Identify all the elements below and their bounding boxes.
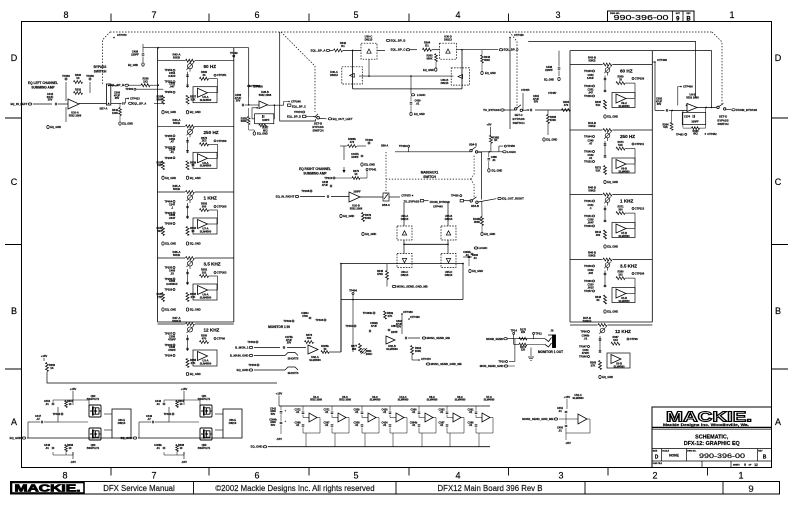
test point CTP208b	[248, 84, 261, 88]
svg-text:FROM_BYPASS: FROM_BYPASS	[430, 200, 450, 204]
svg-text:680: 680	[352, 347, 357, 351]
potentiometer wiper / band label 1 KHZ	[186, 193, 217, 203]
svg-text:.47: .47	[36, 417, 40, 421]
test point TP14	[511, 329, 518, 339]
svg-text:100K: 100K	[365, 216, 371, 220]
dashed branch to MAIN/AUX switch	[510, 32, 518, 106]
svg-text:SLM4560: SLM4560	[200, 295, 212, 299]
svg-text:20KU: 20KU	[366, 352, 373, 356]
svg-text:472: 472	[350, 140, 355, 144]
svg-text:.01: .01	[355, 411, 359, 414]
svg-text:TP239: TP239	[584, 94, 592, 98]
resistor R47-A	[158, 316, 234, 326]
test points TP404/TP222/TP256 and caps C347/C358	[165, 200, 189, 226]
svg-text:SWITCH: SWITCH	[312, 128, 323, 132]
resistor R340 and ground	[112, 103, 133, 125]
terminal EQL_BP_C input	[391, 48, 417, 52]
resistor R366b / TP446 / switch SB6-A	[340, 137, 388, 160]
svg-text:470PF: 470PF	[168, 348, 176, 352]
svg-text:SLM4560: SLM4560	[309, 358, 321, 362]
jumper SHORT5 / terminal B_MAIN_GND	[230, 353, 299, 361]
resistor R372 and ground	[595, 166, 618, 185]
svg-text:SLM4560: SLM4560	[427, 399, 438, 402]
terminal MON2_SEND	[486, 337, 545, 341]
svg-text:.01: .01	[558, 409, 562, 413]
svg-text:.01: .01	[584, 336, 588, 340]
resistor R346b and ground	[473, 201, 495, 236]
switch SB4-D and bypass riser	[469, 142, 482, 199]
svg-text:CAD FILE: CAD FILE	[653, 462, 663, 465]
potentiometer / band label 1 KHZ	[604, 196, 633, 206]
+15V supply mute block	[181, 387, 188, 400]
svg-text:CTP448: CTP448	[514, 33, 524, 37]
capacitor C366 and terminal EQL_BP_A	[111, 91, 164, 106]
svg-text:1: 1	[738, 471, 743, 481]
svg-text:6K2: 6K2	[693, 133, 698, 136]
svg-text:EQL_BP_A: EQL_BP_A	[311, 48, 326, 52]
resistor R44-B	[570, 121, 652, 131]
IC U36-E	[223, 409, 242, 438]
svg-text:250 HZ: 250 HZ	[204, 130, 219, 135]
svg-text:TP461: TP461	[164, 412, 172, 416]
op-amp U6-A	[193, 152, 218, 168]
svg-text:.0047: .0047	[587, 220, 594, 224]
svg-text:470: 470	[564, 103, 569, 107]
resistor R377 and trimmer R84	[351, 344, 372, 356]
capacitor C448 and resistor R368	[44, 443, 74, 452]
svg-text:TP96: TP96	[580, 330, 587, 334]
svg-text:MON2_SEND: MON2_SEND	[486, 337, 503, 341]
svg-text:TP450: TP450	[507, 144, 515, 148]
svg-text:EQ_GND: EQ_GND	[10, 436, 22, 440]
svg-text:MON_SEND_GND: MON_SEND_GND	[480, 364, 504, 368]
switch SET-C BYPASS SWITCH / TO_BYPASS	[483, 105, 529, 125]
svg-text:12 KHZ: 12 KHZ	[615, 329, 631, 334]
svg-text:SLM4560: SLM4560	[200, 164, 212, 168]
test points TP259/TP258 and resistor R330	[62, 73, 94, 84]
svg-text:5: 5	[353, 471, 358, 481]
svg-text:EQ_GND: EQ_GND	[365, 232, 376, 236]
svg-text:CTP470: CTP470	[421, 357, 431, 361]
buffer op-amp U5-C with caps C371/C367	[324, 396, 352, 447]
test points TP244/TP240/TP232 and caps	[584, 135, 606, 164]
svg-text:7: 7	[151, 10, 156, 20]
svg-text:-15V: -15V	[276, 437, 282, 441]
svg-text:EQL_BP_C: EQL_BP_C	[292, 104, 306, 108]
wire/box U30 group	[353, 50, 462, 89]
capacitor C374 feedback	[682, 107, 705, 128]
svg-text:TP409: TP409	[230, 51, 238, 55]
svg-text:100K: 100K	[112, 111, 118, 115]
svg-text:DFX12 Main Board 396 Rev B: DFX12 Main Board 396 Rev B	[438, 484, 543, 493]
op-amp U9-A	[612, 93, 635, 108]
transistor Q60	[53, 428, 101, 455]
dashed bus corner right	[712, 32, 722, 104]
test points TP463 / CTP452	[676, 132, 717, 137]
svg-text:EQ_GND: EQ_GND	[423, 68, 434, 72]
svg-text:BYPASS: BYPASS	[94, 65, 107, 69]
drawing-number strip 990-396-00	[608, 11, 695, 22]
capacitor C380 and ground	[488, 152, 503, 173]
svg-text:SWITCH: SWITCH	[717, 122, 728, 126]
svg-text:60 HZ: 60 HZ	[204, 64, 217, 69]
svg-text:500K: 500K	[156, 97, 162, 101]
resistors R175/R174	[514, 329, 545, 352]
svg-text:500K: 500K	[241, 120, 247, 123]
svg-text:8: 8	[63, 10, 68, 20]
svg-text:EQ_GND: EQ_GND	[165, 242, 176, 246]
terminal EQ_IN_RIGHT	[276, 189, 349, 199]
wire between switch rows	[403, 244, 449, 254]
svg-text:102: 102	[202, 270, 207, 274]
svg-text:300: 300	[157, 229, 162, 233]
svg-text:300: 300	[618, 207, 623, 211]
svg-text:EQ_GND: EQ_GND	[414, 112, 425, 116]
resistor R36B / TP450 / LOGIC	[478, 135, 516, 154]
svg-text:EQ_GND: EQ_GND	[484, 232, 495, 236]
test point TP464	[349, 289, 357, 352]
switch SET-B BYPASS SWITCH	[312, 114, 323, 132]
svg-text:BSS70LT1: BSS70LT1	[87, 446, 100, 450]
svg-text:TP238: TP238	[165, 156, 173, 160]
svg-text:TP240: TP240	[584, 150, 592, 154]
resistor R346 and ground	[481, 50, 496, 75]
svg-text:CTP406: CTP406	[683, 85, 693, 89]
svg-text:5532 2068: 5532 2068	[310, 399, 322, 402]
svg-text:3K: 3K	[596, 298, 599, 302]
svg-text:7: 7	[151, 471, 156, 481]
capacitor C454 and resistor R367	[44, 399, 74, 408]
svg-text:1K3: 1K3	[613, 338, 618, 342]
wire monitor bus	[340, 264, 342, 352]
svg-text:9: 9	[744, 463, 746, 467]
buffer op-amp U12-C with caps C420/C414	[382, 396, 410, 447]
resistor R381 and test point CTP203	[200, 268, 228, 291]
TP210 and capacitor C348	[322, 171, 367, 188]
svg-text:500KB: 500KB	[172, 319, 181, 323]
resistor R365b and ground	[543, 110, 558, 142]
svg-text:.01: .01	[296, 424, 300, 427]
svg-text:100PF: 100PF	[353, 191, 361, 194]
svg-text:51K: 51K	[596, 103, 601, 107]
resistor R44-A	[158, 118, 234, 128]
svg-text:100K: 100K	[415, 349, 421, 353]
svg-text:TP246: TP246	[579, 355, 587, 359]
svg-text:LOGIC: LOGIC	[417, 93, 425, 97]
svg-text:102: 102	[618, 272, 623, 276]
svg-text:LOGIC: LOGIC	[507, 150, 516, 154]
svg-text:50KB: 50KB	[173, 121, 180, 125]
svg-text:.01: .01	[296, 411, 300, 414]
resistor R374	[287, 333, 314, 348]
footer bar	[11, 482, 780, 495]
terminal B_MON_1 and capacitor C375b	[235, 335, 293, 350]
svg-text:EQL_BP_A: EQL_BP_A	[132, 102, 146, 106]
svg-text:TP236: TP236	[584, 264, 592, 268]
resistor R358b and ground	[241, 108, 268, 136]
potentiometer / band label 3.5 KHZ	[604, 261, 637, 271]
svg-text:SLM4560: SLM4560	[618, 169, 630, 173]
svg-text:.01: .01	[469, 411, 473, 414]
terminal MON1_SEND_MB	[408, 315, 450, 340]
svg-text:-15V: -15V	[565, 441, 571, 445]
svg-text:B: B	[775, 306, 781, 316]
svg-text:120: 120	[521, 349, 526, 352]
svg-text:TP12: TP12	[535, 331, 542, 335]
svg-text:REV: REV	[686, 13, 691, 15]
svg-text:TP241: TP241	[584, 214, 592, 218]
svg-text:DFX-12: GRAPHIC EQ: DFX-12: GRAPHIC EQ	[684, 441, 740, 447]
svg-text:EQ_IN_RIGHT: EQ_IN_RIGHT	[276, 195, 295, 199]
svg-text:C384: C384	[391, 325, 397, 328]
svg-text:SB6-A: SB6-A	[381, 145, 388, 148]
svg-text:51K: 51K	[618, 143, 623, 147]
svg-text:TP233: TP233	[584, 224, 592, 228]
svg-text:TP258: TP258	[86, 74, 94, 78]
svg-text:TP454: TP454	[345, 324, 353, 328]
svg-text:47UF: 47UF	[322, 183, 329, 187]
wire bus B	[528, 41, 695, 98]
svg-text:EQ_GND: EQ_GND	[50, 125, 61, 129]
resistor R363 and ground	[423, 51, 437, 72]
svg-text:.01: .01	[492, 158, 496, 162]
switch SET-D	[697, 104, 726, 111]
resistor R366	[683, 127, 706, 136]
op-amp U10-A summing amp	[58, 82, 106, 117]
svg-text:TP243: TP243	[584, 84, 592, 88]
svg-text:1K: 1K	[191, 163, 194, 167]
jack MONITOR 1 OUT connector	[545, 329, 556, 348]
svg-text:EQ_GND: EQ_GND	[602, 375, 613, 379]
svg-text:50KB: 50KB	[173, 56, 180, 60]
transistor Q59	[164, 428, 212, 455]
svg-text:SB4-D: SB4-D	[469, 142, 477, 146]
svg-text:35V: 35V	[657, 102, 662, 106]
svg-text:650K: 650K	[426, 56, 432, 60]
resistor R348 and ground	[595, 295, 618, 314]
svg-text:470PF: 470PF	[168, 337, 176, 341]
svg-text:5: 5	[353, 10, 358, 20]
zone row labels	[5, 53, 788, 427]
svg-text:MONITOR 1 OUT: MONITOR 1 OUT	[538, 350, 563, 354]
capacitor C347b and ground	[351, 152, 375, 167]
svg-text:100PF: 100PF	[262, 119, 270, 122]
svg-text:B_MON_1: B_MON_1	[235, 346, 249, 350]
wire bus C	[652, 51, 712, 109]
test point CTP12	[533, 331, 543, 338]
svg-text:EQ_GND: EQ_GND	[343, 214, 354, 218]
svg-text:EQ_GND: EQ_GND	[251, 445, 263, 449]
svg-text:CTP452: CTP452	[707, 132, 717, 136]
terminal MON1_SEND_GND_MB	[392, 285, 427, 289]
wire to MAIN/AUX switch	[389, 196, 400, 198]
dashed control line SB6	[385, 152, 387, 196]
svg-text:CTP375: CTP375	[401, 194, 411, 198]
terminal MON_SEND_GND and TP10	[480, 339, 515, 368]
svg-text:C374: C374	[684, 115, 691, 118]
buffer op-amp U7-C with caps C361/C386	[468, 396, 496, 447]
svg-text:6.8UF: 6.8UF	[587, 76, 594, 80]
svg-text:300: 300	[596, 233, 601, 237]
svg-text:990-396-00: 990-396-00	[614, 13, 669, 22]
svg-text:CTP466: CTP466	[403, 310, 413, 314]
svg-text:4: 4	[455, 471, 460, 481]
test points CTP375 / TP438	[401, 194, 461, 198]
op-amp U6-B	[612, 158, 635, 173]
svg-text:1: 1	[729, 10, 734, 20]
svg-text:+15V: +15V	[276, 392, 283, 396]
resistor R373 and test point CTP206	[200, 136, 228, 159]
svg-text:SLM4560: SLM4560	[200, 98, 212, 102]
svg-text:EQ_GND: EQ_GND	[472, 269, 483, 273]
label BYPASS SWITCH left	[94, 65, 107, 74]
svg-text:400K: 400K	[484, 58, 490, 62]
ground EQ_GND pair	[162, 176, 201, 180]
svg-text:51K: 51K	[157, 163, 162, 167]
svg-text:220PF: 220PF	[131, 52, 139, 56]
svg-text:35V: 35V	[397, 325, 402, 329]
svg-text:SCALE: SCALE	[662, 450, 669, 453]
svg-text:EQ_GND: EQ_GND	[165, 110, 176, 114]
svg-text:CTP208: CTP208	[253, 84, 263, 88]
resistor R364b	[663, 110, 673, 130]
svg-text:CTP206: CTP206	[217, 139, 227, 143]
svg-text:B_MAIN_GND: B_MAIN_GND	[230, 354, 249, 358]
ground EQ_GND pair	[162, 308, 201, 312]
svg-text:.0047: .0047	[169, 216, 176, 220]
svg-text:.01: .01	[45, 446, 49, 450]
svg-text:TP257: TP257	[584, 289, 592, 293]
svg-text:.0015: .0015	[587, 285, 594, 289]
svg-text:MON1_SEND_GND_MB: MON1_SEND_GND_MB	[397, 285, 428, 289]
svg-text:470: 470	[202, 336, 207, 340]
svg-text:TP247: TP247	[579, 345, 587, 349]
svg-text:CTP205: CTP205	[217, 205, 227, 209]
resistors R336/R337	[156, 95, 196, 105]
resistor R368 and ground	[590, 361, 613, 380]
capacitor C446 and resistor R367	[155, 399, 185, 408]
svg-text:TP433: TP433	[315, 318, 323, 322]
wire TP448 vertical	[509, 33, 524, 129]
svg-text:CTP238: CTP238	[635, 77, 645, 81]
label MONITOR 1 OUT	[538, 350, 563, 354]
svg-text:.01: .01	[412, 411, 416, 414]
svg-text:B1: B1	[341, 44, 345, 48]
svg-text:EQ_GND: EQ_GND	[237, 368, 249, 372]
test point TP461	[164, 412, 174, 416]
svg-text:EQ_GND: EQ_GND	[190, 176, 201, 180]
svg-text:B1: B1	[425, 43, 429, 47]
svg-text:Mackie Designs Inc. Woodinvi: Mackie Designs Inc. Woodinville, Wa.	[663, 423, 749, 427]
-15V supply mute block	[70, 452, 76, 464]
svg-text:1K: 1K	[354, 172, 357, 176]
transistor Q61	[164, 394, 212, 417]
svg-text:SWITCH: SWITCH	[513, 121, 525, 125]
svg-text:REV: REV	[758, 451, 763, 453]
svg-text:C: C	[11, 177, 18, 187]
svg-text:EQ_GND: EQ_GND	[607, 310, 618, 314]
svg-text:50KB: 50KB	[588, 254, 595, 258]
svg-text:250 HZ: 250 HZ	[620, 134, 635, 139]
svg-text:300: 300	[202, 204, 207, 208]
op-amp U5-A	[193, 87, 218, 103]
svg-text:EQ_GND: EQ_GND	[190, 242, 201, 246]
resistor R348	[377, 264, 389, 287]
LOGIC terminal 2 and capacitor C380b	[463, 246, 487, 257]
svg-text:D8210: D8210	[445, 273, 453, 277]
analog switch U30-A	[330, 67, 362, 84]
svg-text:TP463: TP463	[676, 133, 684, 137]
svg-text:5532 2068: 5532 2068	[69, 113, 82, 117]
LOGIC terminal and capacitor C439	[410, 75, 426, 116]
svg-text:1K: 1K	[494, 138, 497, 142]
switch SB6-C	[360, 193, 390, 207]
test points TP235/TP230/TP229 and caps C408/C353	[165, 266, 189, 292]
svg-text:.033: .033	[588, 271, 594, 275]
potentiometer wiper / band label 250 HZ	[186, 127, 218, 137]
svg-text:51K: 51K	[191, 97, 196, 101]
svg-text:220PF: 220PF	[545, 68, 553, 72]
svg-text:6: 6	[254, 10, 259, 20]
wire stack-left vertical	[248, 48, 250, 97]
ground EQ_GND and wires	[10, 407, 112, 440]
svg-text:CTP211: CTP211	[635, 142, 645, 146]
svg-text:SLM4560: SLM4560	[455, 399, 466, 402]
svg-text:.01: .01	[412, 424, 416, 427]
op-amp U3-A	[193, 350, 217, 366]
op-amp U62-A	[308, 345, 321, 362]
dashed MAIN/AUX control link	[386, 156, 474, 198]
svg-text:.01: .01	[469, 424, 473, 427]
svg-text:5532 2068: 5532 2068	[259, 93, 272, 97]
svg-text:TP463b: TP463b	[363, 311, 373, 315]
svg-text:35V: 35V	[236, 99, 241, 103]
svg-text:CTP408: CTP408	[657, 58, 667, 62]
svg-text:470PF: 470PF	[582, 351, 590, 355]
svg-text:D8213: D8213	[401, 217, 409, 221]
svg-text:990-396-00: 990-396-00	[699, 453, 745, 460]
svg-text:EQL_BP_C: EQL_BP_C	[391, 48, 406, 52]
svg-text:SUMMING AMP: SUMMING AMP	[31, 86, 55, 90]
potentiometer / band label 250 HZ	[604, 131, 635, 141]
svg-text:SLM4560: SLM4560	[618, 234, 630, 238]
dashed wire to CTP376	[103, 32, 128, 84]
svg-text:.01: .01	[325, 411, 329, 414]
svg-text:TP210: TP210	[324, 176, 332, 180]
svg-text:D8213: D8213	[401, 273, 409, 277]
svg-text:EQL_BP_D: EQL_BP_D	[504, 48, 519, 52]
resistor R358 and ground	[186, 358, 201, 376]
analog switch U40-A	[397, 202, 412, 244]
svg-text:SB6-C: SB6-C	[382, 203, 390, 207]
resistor R43-B	[570, 56, 652, 66]
resistor R364	[423, 41, 440, 52]
svg-text:27K: 27K	[157, 295, 162, 299]
op-amp U3-B	[607, 353, 630, 368]
dashed bus wire top	[110, 31, 712, 33]
svg-text:60 HZ: 60 HZ	[620, 69, 633, 74]
terminal EQL_BP_D right	[457, 48, 519, 52]
+5V supply	[486, 123, 491, 136]
potentiometer / band label 60 HZ	[604, 66, 633, 76]
analog switch U30-D	[440, 35, 457, 60]
svg-text:CTP460: CTP460	[410, 315, 420, 319]
analog switch U30-B	[441, 68, 470, 85]
svg-text:TP10: TP10	[498, 360, 505, 364]
svg-text:6.8UF: 6.8UF	[168, 74, 176, 78]
svg-text:MAIN/AUX1: MAIN/AUX1	[421, 170, 439, 174]
svg-text:TP245: TP245	[584, 69, 592, 73]
